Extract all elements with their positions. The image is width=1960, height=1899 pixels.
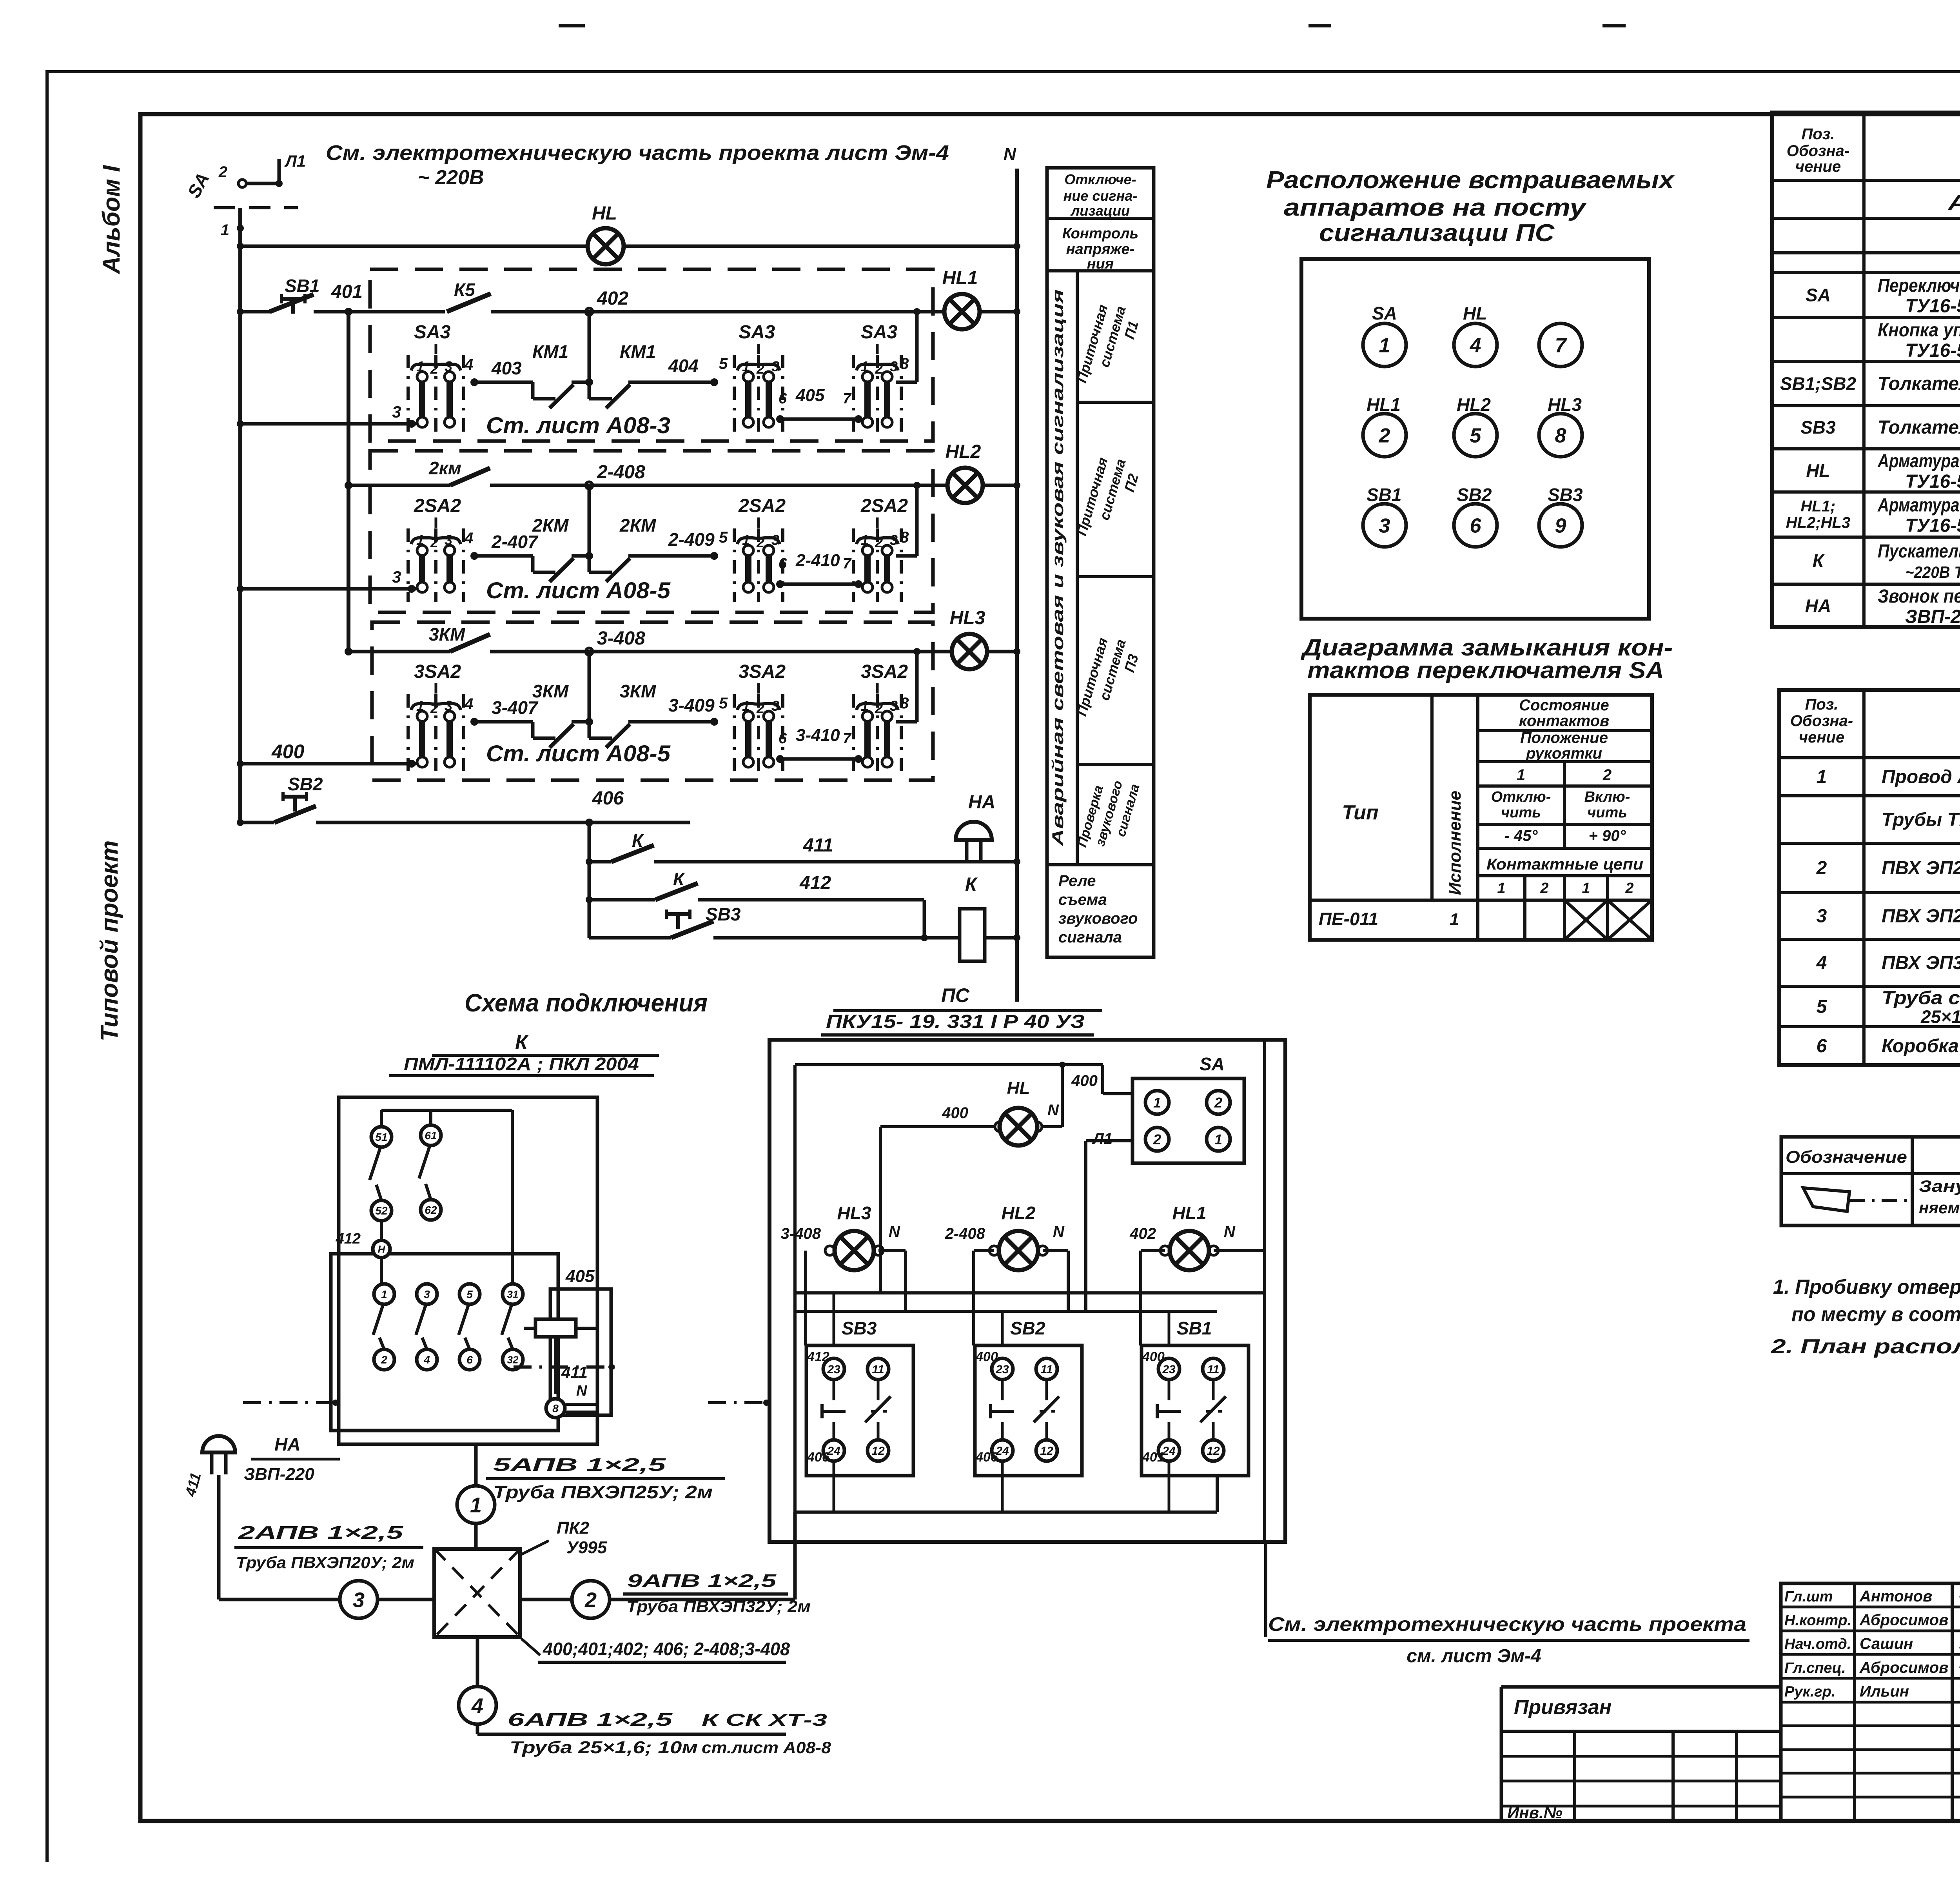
registration tick marks top [559, 24, 585, 27]
svg-text:411: 411 [803, 835, 833, 856]
wire circled 2 (9АПВ) [520, 1598, 795, 1601]
svg-text:Толкатель „ красный ”: Толкатель „ красный ” [1878, 417, 1960, 438]
button block SВ3 [806, 1345, 913, 1476]
lamp HL1 [944, 294, 980, 329]
svg-text:Труба ПВХЭП25У; 2м: Труба ПВХЭП25У; 2м [493, 1482, 713, 1502]
lamp HL3 (ПС) [825, 1246, 835, 1255]
svg-text:31: 31 [507, 1288, 519, 1300]
wire 406 row [316, 821, 690, 824]
svg-text:8: 8 [900, 529, 909, 546]
wires lamps to buses [804, 1249, 807, 1252]
wire terminal 8 up to lamp row [896, 381, 917, 384]
svg-text:1: 1 [1517, 766, 1525, 784]
wire bottom terminal row label 3 [237, 420, 244, 427]
svg-text:Сашин: Сашин [1860, 1635, 1913, 1652]
svg-text:SВ2: SВ2 [288, 774, 323, 794]
svg-text:3КМ: 3КМ [532, 681, 569, 701]
svg-text:рукоятки: рукоятки [1526, 745, 1602, 762]
lamp HL2 (ПС) [989, 1246, 999, 1255]
svg-text:Звонок переменного тока 220В: Звонок переменного тока 220В [1878, 586, 1960, 607]
svg-text:400: 400 [975, 1349, 998, 1364]
svg-text:1: 1 [1582, 880, 1590, 897]
svg-text:1: 1 [1214, 1131, 1222, 1147]
button block SВ2 [975, 1345, 1082, 1476]
svg-text:НА: НА [968, 792, 995, 813]
relay contact К (row 412) [586, 896, 593, 903]
svg-text:Абросимов: Абросимов [1859, 1612, 1948, 1629]
svg-text:Отклю-: Отклю- [1491, 789, 1551, 805]
svg-text:406: 406 [807, 1450, 830, 1465]
wire 6-3-410-7 between groups [776, 755, 784, 763]
wire terminal 8 up to lamp row [896, 720, 917, 724]
svg-text:Ильин: Ильин [1860, 1683, 1909, 1700]
svg-text:НА: НА [274, 1434, 300, 1454]
svg-text:Исполнение: Исполнение [1445, 791, 1465, 895]
ground dash-dot into ПС [708, 1401, 769, 1404]
wire terminal 4 with label 3-407 [470, 718, 478, 726]
svg-text:2АПВ 1×2,5: 2АПВ 1×2,5 [238, 1522, 404, 1543]
svg-text:1: 1 [742, 698, 750, 714]
svg-text:62: 62 [425, 1204, 437, 1216]
wire bottom terminal row label 400 [237, 760, 244, 767]
wire: top loop to SA [795, 1063, 1103, 1066]
svg-text:HL2: HL2 [1457, 394, 1491, 415]
svg-text:6АПВ 1×2,5: 6АПВ 1×2,5 [508, 1709, 673, 1730]
svg-text:25×1,6 ГОСТ 10704-76: 25×1,6 ГОСТ 10704-76 [1920, 1007, 1960, 1027]
svg-text:3: 3 [1379, 515, 1390, 537]
svg-text:Контроль: Контроль [1062, 225, 1139, 242]
svg-text:1: 1 [381, 1288, 387, 1300]
button block SВ1 [1142, 1345, 1249, 1476]
svg-text:Аварийная световая и звуковая: Аварийная световая и звуковая сигнализац… [1049, 289, 1067, 847]
svg-text:1: 1 [1817, 767, 1827, 788]
svg-text:ПВХ ЭП25У: ПВХ ЭП25У [1882, 906, 1960, 927]
svg-text:401: 401 [1142, 1450, 1165, 1465]
wire node 402 down to contactor pair [588, 312, 591, 382]
svg-text:2: 2 [1540, 880, 1548, 897]
wire terminal 4 with label 403 [470, 378, 478, 386]
svg-text:1: 1 [416, 532, 424, 548]
wire: node 401 vertical feeder [347, 312, 350, 652]
wire node 406 down [588, 822, 591, 938]
svg-text:2SA2: 2SA2 [860, 496, 908, 516]
svg-text:Тип: Тип [1342, 801, 1378, 824]
dashed enclosure box system 2 [370, 451, 933, 612]
wire main row to lamp junction [917, 650, 933, 654]
svg-text:SВ3: SВ3 [1800, 417, 1836, 438]
svg-text:400;401;402; 406; 2-408;3-408: 400;401;402; 406; 2-408;3-408 [543, 1639, 790, 1659]
node 2-408 [586, 482, 593, 489]
node 406 [585, 819, 593, 826]
svg-text:3-409: 3-409 [668, 695, 715, 715]
svg-text:Зануляющий проводник электроус: Зануляющий проводник электроустановки, п… [1919, 1177, 1960, 1195]
svg-text:404: 404 [668, 356, 699, 376]
svg-text:Л1: Л1 [284, 152, 306, 170]
svg-text:Привязан: Привязан [1514, 1696, 1612, 1719]
svg-text:402: 402 [1129, 1225, 1156, 1242]
svg-text:405: 405 [565, 1267, 595, 1286]
svg-text:- 45°: - 45° [1504, 827, 1538, 844]
wire bell to junction box [217, 1475, 221, 1599]
svg-text:51: 51 [375, 1131, 387, 1143]
svg-text:ТУ16-526.408-76: ТУ16-526.408-76 [1905, 296, 1960, 317]
svg-text:3: 3 [771, 532, 779, 548]
wire lamp HL2 to N [982, 484, 1017, 487]
svg-text:8: 8 [900, 695, 909, 712]
svg-text:11: 11 [872, 1363, 884, 1376]
node N top [1013, 243, 1020, 250]
svg-text:Расположение встраиваемых: Расположение встраиваемых [1266, 167, 1675, 194]
svg-text:тактов переключателя SA: тактов переключателя SA [1307, 657, 1664, 683]
circled positions 2 5 8 [1363, 414, 1406, 457]
svg-text:N: N [1047, 1102, 1059, 1119]
lamp HL2 [947, 468, 983, 503]
svg-text:2SA2: 2SA2 [738, 496, 786, 516]
wire list callout 400;401;402;406 [521, 1639, 540, 1655]
svg-text:ТУ16-526.407-79: ТУ16-526.407-79 [1905, 340, 1960, 361]
wire circled 3 (2АПВ) [219, 1598, 434, 1601]
svg-text:1: 1 [470, 1493, 482, 1517]
svg-text:ЗВП-220: ЗВП-220 [244, 1465, 314, 1484]
svg-text:см. лист Эм-4: см. лист Эм-4 [1406, 1646, 1541, 1667]
svg-text:Инв.№: Инв.№ [1507, 1803, 1563, 1822]
wire lamp row to box edge [933, 650, 953, 654]
svg-text:Диаграмма замыкания кон-: Диаграмма замыкания кон- [1300, 634, 1673, 661]
table: materials list [1779, 690, 1960, 1065]
wire lamp HL3 to N [986, 650, 1017, 654]
svg-text:SВ1: SВ1 [1177, 1318, 1212, 1338]
svg-text:SA: SA [1372, 303, 1397, 323]
svg-text:чить: чить [1587, 804, 1627, 821]
node 401 [345, 308, 352, 316]
wire lamp HL1 to N [978, 310, 1017, 314]
svg-text:Вклю-: Вклю- [1584, 789, 1630, 805]
svg-text:чение: чение [1799, 729, 1844, 746]
svg-text:Переключатель ПЕ011УЗ; исп.1: Переключатель ПЕ011УЗ; исп.1 [1878, 276, 1960, 296]
svg-text:Абросимов: Абросимов [1859, 1659, 1948, 1676]
svg-text:Поз.: Поз. [1802, 125, 1835, 143]
svg-text:3: 3 [392, 568, 401, 586]
svg-text:2: 2 [875, 700, 883, 716]
svg-text:Труба ПВХЭП20У; 2м: Труба ПВХЭП20У; 2м [236, 1553, 414, 1572]
svg-text:1: 1 [1153, 1095, 1161, 1111]
table: grounding symbol legend [1781, 1137, 1960, 1225]
wire circled 1 (5АПВ) [474, 1444, 478, 1549]
bell НА (bottom) [202, 1436, 235, 1474]
svg-text:лизации: лизации [1070, 203, 1130, 219]
svg-text:HL: HL [1806, 460, 1830, 481]
wire tap Л1 [278, 159, 281, 183]
svg-text:ПВХ ЭП20У: ПВХ ЭП20У [1882, 858, 1960, 879]
svg-text:3SA2: 3SA2 [861, 661, 908, 682]
svg-text:Н: Н [378, 1243, 386, 1255]
svg-text:SA: SA [1200, 1054, 1225, 1074]
svg-text:ПМЛ-111102А ; ПКЛ 2004: ПМЛ-111102А ; ПКЛ 2004 [404, 1054, 639, 1074]
svg-text:1: 1 [416, 698, 424, 714]
lamp HL (on ПС) [995, 1122, 1004, 1131]
svg-text:3: 3 [353, 1588, 365, 1612]
wire main row to lamp junction [917, 310, 933, 314]
svg-text:2. План расположения см. лист: 2. План расположения см. лист А08-9. [1771, 1335, 1960, 1358]
svg-text:~220В ТУ16-526.437-78.Приставк: ~220В ТУ16-526.437-78.Приставка ПКЛ2004;… [1905, 563, 1960, 581]
svg-text:1: 1 [861, 532, 869, 548]
svg-text:Реле: Реле [1058, 872, 1096, 890]
svg-text:ПС: ПС [941, 984, 970, 1006]
node 3-408 [586, 648, 593, 655]
svg-text:SВ3: SВ3 [842, 1318, 877, 1338]
svg-text:3SA2: 3SA2 [739, 661, 786, 682]
svg-text:5: 5 [1817, 997, 1828, 1017]
svg-text:ние сигна-: ние сигна- [1063, 188, 1138, 204]
svg-text:контактов: контактов [1519, 712, 1610, 730]
svg-text:401: 401 [331, 281, 363, 302]
signature table [1781, 1583, 1960, 1821]
svg-text:3КМ: 3КМ [620, 681, 657, 701]
svg-text:3: 3 [890, 698, 898, 714]
circled positions 1 4 7 [1363, 323, 1406, 367]
wire 6-405-7 between groups [776, 415, 784, 423]
svg-text:N: N [576, 1383, 588, 1399]
svg-text:7: 7 [843, 730, 852, 747]
svg-text:SA: SA [1806, 285, 1831, 305]
switch SA (packet switch head) [238, 180, 246, 187]
svg-text:HL1;: HL1; [1801, 498, 1836, 515]
svg-text:2: 2 [430, 361, 438, 377]
svg-text:съема: съема [1058, 891, 1107, 908]
svg-text:Кнопка управления КЕ011УЗ; исп: Кнопка управления КЕ011УЗ; исп.2 [1878, 320, 1960, 341]
SA dashed linkage [214, 206, 298, 209]
svg-text:1: 1 [861, 358, 869, 374]
svg-text:Арматура светосигнальная АЕР12: Арматура светосигнальная АЕР1212УЗ [1877, 495, 1960, 516]
svg-text:400: 400 [1071, 1072, 1098, 1089]
svg-text:3-410: 3-410 [796, 726, 840, 745]
svg-text:Поз.: Поз. [1805, 696, 1838, 713]
svg-text:Рук.гр.: Рук.гр. [1784, 1683, 1835, 1700]
selector SA terminals box [1132, 1078, 1244, 1163]
svg-text:4: 4 [464, 356, 473, 373]
svg-text:5: 5 [719, 355, 728, 372]
svg-text:Ст. лист А08-3: Ст. лист А08-3 [486, 413, 670, 438]
svg-text:КМ1: КМ1 [620, 341, 656, 362]
svg-text:HL: HL [1007, 1078, 1030, 1098]
wire joining rows 412/SB3 to relay coil [923, 900, 926, 938]
svg-text:К: К [1813, 550, 1825, 571]
svg-text:12: 12 [1040, 1445, 1053, 1458]
wire: neutral N vertical [1015, 169, 1019, 1002]
svg-text:2: 2 [756, 361, 764, 377]
svg-text:23: 23 [827, 1363, 840, 1376]
ground dash-dot segment B [514, 1365, 615, 1369]
svg-text:ст.лист А08-8: ст.лист А08-8 [702, 1738, 831, 1757]
svg-text:НА: НА [1805, 595, 1831, 616]
node: bus top [237, 225, 244, 232]
svg-text:сигнала: сигнала [1058, 929, 1122, 946]
wire node 2-408 down to contactor pair [588, 485, 591, 556]
lamp HL [588, 228, 624, 264]
svg-text:SA3: SA3 [414, 322, 451, 343]
svg-text:К: К [515, 1031, 529, 1054]
svg-text:23: 23 [1162, 1363, 1176, 1376]
svg-text:Обозна-: Обозна- [1790, 712, 1853, 730]
placement panel box [1301, 259, 1649, 619]
wire lamp row to box edge [933, 484, 949, 487]
svg-text:9: 9 [1555, 515, 1566, 537]
svg-text:6: 6 [1817, 1036, 1827, 1057]
wire HL left down [880, 1125, 995, 1128]
aux contacts 51-52 61-62 [371, 1127, 392, 1147]
svg-text:чить: чить [1501, 804, 1541, 821]
svg-text:Ст. лист А08-5: Ст. лист А08-5 [486, 578, 671, 603]
grounding conductor symbol [1803, 1188, 1849, 1211]
svg-text:Отключе-: Отключе- [1064, 171, 1136, 187]
svg-text:2SA2: 2SA2 [414, 496, 461, 516]
svg-text:5: 5 [466, 1288, 473, 1300]
wire: ПС bottom bus [795, 1510, 1217, 1514]
svg-text:Труба 25×1,6; 10м: Труба 25×1,6; 10м [510, 1738, 698, 1757]
svg-text:Арматура светосигнальная АЕР12: Арматура светосигнальная АЕР1252УЗ [1877, 451, 1960, 472]
svg-text:напряже-: напряже- [1066, 241, 1135, 258]
svg-text:32: 32 [507, 1354, 519, 1365]
svg-text:2: 2 [430, 700, 438, 716]
svg-text:7: 7 [843, 556, 852, 572]
wire: top lamp row ~220V [237, 243, 244, 250]
dashed enclosure box system 1 [370, 269, 933, 441]
svg-text:SA3: SA3 [861, 322, 898, 343]
closed-contact X marks [1564, 900, 1608, 940]
wire segment to node 401 [314, 310, 445, 314]
svg-text:9АПВ 1×2,5: 9АПВ 1×2,5 [627, 1570, 777, 1591]
svg-text:3: 3 [890, 358, 898, 374]
svg-text:3SA2: 3SA2 [414, 661, 461, 682]
svg-text:2: 2 [875, 361, 883, 377]
svg-text:2: 2 [756, 700, 764, 716]
svg-text:400: 400 [1142, 1349, 1165, 1364]
svg-text:Аппаратура по месту: Аппаратура по месту [1947, 191, 1960, 214]
svg-text:HL1: HL1 [1172, 1203, 1207, 1223]
svg-text:У995: У995 [566, 1538, 607, 1557]
svg-text:400: 400 [942, 1104, 968, 1122]
svg-text:Труба ПВХЭП32У; 2м: Труба ПВХЭП32У; 2м [626, 1597, 811, 1616]
svg-text:HL1: HL1 [942, 268, 978, 289]
svg-text:ТУ16-535.931-73: ТУ16-535.931-73 [1905, 471, 1960, 492]
svg-text:405: 405 [795, 386, 825, 405]
svg-text:3КМ: 3КМ [429, 624, 466, 644]
svg-text:3: 3 [890, 532, 898, 548]
svg-text:3: 3 [445, 698, 452, 714]
svg-text:2: 2 [1602, 766, 1612, 784]
svg-text:Пускатель магнитный ПМЛ-11110: Пускатель магнитный ПМЛ-111102А [1878, 541, 1960, 562]
lamp HL1 (ПС) [1160, 1246, 1170, 1255]
svg-text:2: 2 [1816, 858, 1827, 879]
svg-text:52: 52 [375, 1205, 388, 1217]
table: Аппаратура по месту [1772, 113, 1960, 627]
svg-text:3: 3 [445, 358, 452, 374]
svg-text:1: 1 [742, 358, 750, 374]
svg-text:К СК ХТ-3: К СК ХТ-3 [702, 1710, 827, 1730]
svg-text:Гл.шт: Гл.шт [1784, 1589, 1833, 1605]
wire 401->402 [491, 310, 933, 314]
svg-text:N: N [1053, 1223, 1065, 1240]
svg-text:1: 1 [416, 358, 424, 374]
svg-text:HL: HL [592, 203, 617, 224]
svg-text:Типовой проект: Типовой проект [96, 841, 123, 1042]
wire to node 2-408 [490, 484, 933, 487]
svg-text:2-409: 2-409 [668, 529, 715, 550]
svg-text:N: N [889, 1223, 900, 1240]
main contacts 1-2 3-4 5-6 31-32 [374, 1284, 394, 1304]
svg-text:Ст. лист А08-5: Ст. лист А08-5 [486, 741, 671, 766]
svg-text:4: 4 [471, 1694, 483, 1717]
svg-text:3-407: 3-407 [492, 697, 539, 718]
svg-text:КМ1: КМ1 [532, 341, 568, 362]
svg-text:HL3: HL3 [1548, 394, 1582, 415]
svg-text:4: 4 [1816, 953, 1827, 973]
svg-text:5: 5 [719, 695, 728, 712]
svg-text:412: 412 [799, 873, 831, 893]
svg-text:6: 6 [1470, 515, 1482, 537]
svg-text:2: 2 [756, 534, 764, 550]
contactor contact 3КМ [345, 648, 352, 655]
svg-text:2: 2 [1625, 880, 1633, 897]
svg-text:HL2: HL2 [946, 441, 981, 462]
relay coil (К) [535, 1319, 576, 1337]
svg-text:2-410: 2-410 [795, 551, 840, 570]
svg-text:+ 90°: + 90° [1589, 827, 1626, 844]
svg-text:400: 400 [271, 741, 305, 763]
svg-text:2: 2 [1153, 1131, 1161, 1147]
callout: см. электротехническую часть проекта [1264, 1542, 1267, 1637]
svg-text:5АПВ 1×2,5: 5АПВ 1×2,5 [493, 1454, 666, 1475]
svg-text:2: 2 [1379, 425, 1390, 447]
svg-text:8: 8 [552, 1402, 559, 1414]
svg-text:4: 4 [464, 530, 473, 547]
svg-text:сигнализации ПС: сигнализации ПС [1319, 220, 1555, 247]
svg-text:ТУ16-535.931-73: ТУ16-535.931-73 [1905, 516, 1960, 536]
svg-text:~ 220В: ~ 220В [417, 166, 484, 189]
svg-text:См. электротехническую часть п: См. электротехническую часть проекта лис… [326, 141, 949, 165]
wire node 3-408 down to contactor pair [588, 652, 591, 722]
svg-text:12: 12 [1207, 1445, 1220, 1458]
junction box ПК2 У995 [434, 1549, 520, 1637]
svg-text:SВ1;SВ2: SВ1;SВ2 [1780, 374, 1857, 394]
svg-text:К: К [965, 874, 978, 895]
svg-text:SВ3: SВ3 [1548, 485, 1583, 505]
svg-text:Контактные цепи: Контактные цепи [1486, 856, 1643, 873]
svg-text:3: 3 [445, 532, 452, 548]
svg-text:1: 1 [221, 221, 229, 239]
svg-text:2: 2 [875, 534, 883, 550]
svg-text:2КМ: 2КМ [619, 515, 657, 536]
svg-text:2: 2 [430, 534, 438, 550]
svg-text:2-408: 2-408 [597, 462, 645, 483]
svg-text:Положение: Положение [1520, 729, 1608, 746]
svg-text:Обозна-: Обозна- [1787, 142, 1849, 160]
svg-text:Толкатель „ черный ”: Толкатель „ черный ” [1878, 374, 1960, 394]
wire HL right up to loop [1042, 1125, 1062, 1128]
wire exits to junction box [793, 1512, 797, 1599]
wire circled 4 (6АПВ) [476, 1637, 479, 1734]
svg-text:5: 5 [1470, 425, 1482, 447]
wire terminal 5 with label 2-409 [652, 554, 714, 558]
svg-text:8: 8 [1555, 425, 1566, 447]
svg-text:6: 6 [779, 556, 787, 572]
node 402 [586, 308, 593, 315]
svg-text:ПЕ-011: ПЕ-011 [1319, 909, 1378, 929]
ground dash-dot to starter [243, 1401, 339, 1404]
svg-text:Состояние: Состояние [1519, 697, 1609, 714]
wire bottom terminal row label 3 [237, 585, 244, 592]
svg-text:N: N [1004, 145, 1016, 164]
